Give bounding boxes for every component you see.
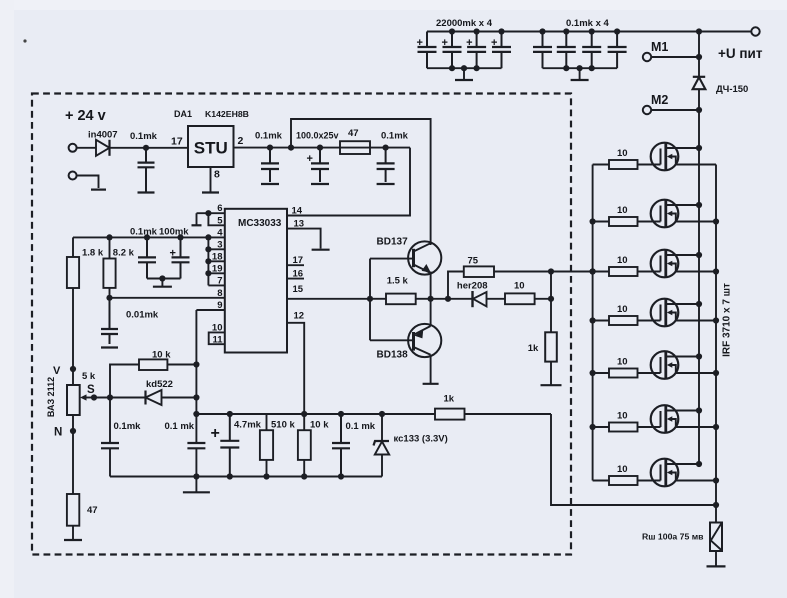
capacitor 0.1mk filter out — [377, 131, 409, 183]
svg-text:11: 11 — [212, 334, 223, 345]
ground STU pin 8 — [202, 191, 219, 193]
svg-text:Rш 100a 75 мв: Rш 100a 75 мв — [642, 532, 704, 542]
ground 47 — [64, 539, 82, 541]
potentiometer 5k VAZ2112 — [46, 371, 96, 417]
resistor 10k pin12 — [298, 411, 329, 477]
svg-text:2: 2 — [238, 135, 244, 147]
svg-text:8: 8 — [217, 288, 222, 299]
terminal M1 — [643, 53, 651, 61]
resistor 10 (gate VT5) — [593, 357, 638, 378]
terminal +U pit — [751, 27, 759, 35]
svg-text:her208: her208 — [457, 281, 488, 292]
node N — [70, 428, 76, 434]
wire BD138 emitter up — [430, 299, 432, 326]
resistor 10 driver — [487, 281, 552, 304]
svg-text:+: + — [211, 425, 220, 442]
svg-text:+: + — [307, 153, 313, 165]
svg-text:0.1mk: 0.1mk — [255, 131, 283, 142]
pin 17 stub — [287, 264, 304, 266]
ground pins 5,6 — [192, 224, 202, 226]
svg-text:ВАЗ 2112: ВАЗ 2112 — [46, 377, 56, 417]
svg-text:10: 10 — [617, 205, 628, 216]
wire BD137 emitter down — [430, 272, 432, 299]
svg-text:0.1mk: 0.1mk — [130, 227, 158, 238]
transistor Q2 BD138 — [377, 324, 442, 361]
ground — [311, 183, 329, 185]
terminal input plus — [69, 144, 77, 152]
capacitor 0.1mk wiper — [101, 398, 141, 477]
wire +U supply top rail — [427, 31, 752, 33]
svg-text:1k: 1k — [444, 394, 455, 405]
ground lower net — [195, 477, 197, 492]
MOSFET VT3 IRF3710 — [638, 250, 717, 278]
wire lower net rail — [196, 413, 435, 415]
svg-text:M2: M2 — [651, 93, 668, 107]
svg-text:100mk: 100mk — [159, 227, 189, 238]
svg-text:+: + — [442, 37, 448, 49]
svg-text:+: + — [466, 37, 472, 49]
dashed border of control board — [32, 94, 571, 555]
MOSFET VT4 IRF3710 — [638, 299, 717, 327]
op-amp U2 MC33033 controller — [225, 209, 287, 353]
wire source bus — [715, 165, 717, 523]
svg-text:+: + — [170, 248, 176, 260]
wire pin6 to ground — [196, 213, 198, 224]
MOSFET VT6 IRF3710 — [638, 405, 717, 433]
node out split — [445, 296, 451, 302]
svg-text:+ 24 v: + 24 v — [65, 108, 106, 124]
svg-text:10 k: 10 k — [310, 420, 329, 431]
node gate drive — [548, 268, 554, 274]
node supply tap — [696, 28, 702, 34]
wire caps common — [147, 278, 181, 280]
wire STU pin2 rail — [234, 147, 411, 149]
resistor 10 (gate VT3) — [593, 255, 638, 276]
resistor 10 (gate VT4) — [593, 304, 638, 325]
node driver out — [428, 296, 434, 302]
svg-text:4: 4 — [217, 227, 223, 238]
svg-text:STU: STU — [194, 139, 228, 158]
pins 10,11 tie — [209, 332, 225, 344]
resistor 10 (gate VT7) — [593, 464, 638, 485]
ground BD138 — [423, 383, 439, 385]
svg-text:75: 75 — [468, 256, 479, 267]
diode kd522 — [146, 379, 197, 405]
wire gate bus — [592, 165, 594, 481]
svg-text:7: 7 — [217, 276, 222, 287]
op-amp U DA1 K142EH8B regulator STU — [171, 109, 249, 181]
svg-text:0.1mk x 4: 0.1mk x 4 — [566, 18, 609, 29]
resistor 1k pulldown — [528, 272, 557, 385]
wire 1.8k to pot — [72, 288, 74, 385]
wire current feedback — [551, 414, 716, 505]
svg-text:47: 47 — [87, 505, 98, 516]
svg-text:0.1 mk: 0.1 mk — [346, 421, 376, 432]
wire pin9 vertical — [195, 310, 197, 443]
svg-text:BD137: BD137 — [377, 237, 409, 248]
pin 8 wire — [110, 297, 225, 299]
pin 9 wire — [196, 309, 224, 311]
svg-text:10: 10 — [617, 411, 628, 422]
wire BD138 collector to ground — [430, 355, 432, 383]
wire BD138 base — [370, 339, 414, 341]
ground — [377, 183, 395, 185]
svg-text:22000mk x 4: 22000mk x 4 — [436, 18, 493, 29]
resistor 10 (gate VT6) — [593, 411, 638, 432]
capacitor 0.01mk — [101, 298, 159, 344]
wire shunt to ground — [715, 551, 717, 566]
capacitor 0.1mk pin9 — [165, 421, 206, 477]
pin 19 wire — [208, 272, 224, 274]
svg-text:MC33033: MC33033 — [238, 218, 282, 229]
capacitor bank 0.1mk x 4 — [533, 18, 627, 71]
wire diode to STU pin17 — [110, 147, 189, 149]
svg-text:19: 19 — [212, 263, 223, 274]
shunt resistor Rsh 100a 75mv — [642, 523, 722, 552]
resistor 47 lower — [67, 494, 98, 526]
pin 13 wire — [287, 229, 321, 249]
svg-text:M1: M1 — [651, 40, 668, 54]
svg-text:N: N — [54, 427, 62, 439]
wire out node — [431, 298, 473, 300]
svg-text:10: 10 — [514, 281, 525, 292]
svg-text:18: 18 — [212, 251, 223, 262]
svg-text:10: 10 — [617, 255, 628, 266]
wire pot to 47 — [72, 415, 74, 494]
svg-text:+U пит: +U пит — [718, 46, 763, 61]
ground pin 13 — [312, 249, 330, 251]
capacitor 0.1mk ref — [332, 411, 376, 477]
svg-text:кс133 (3.3V): кс133 (3.3V) — [394, 434, 448, 445]
node pin6 — [205, 210, 211, 216]
pin 8 wire STU — [210, 167, 212, 192]
wire filtered supply to pin 14 — [287, 148, 410, 216]
node 8.2k pin8 — [106, 295, 112, 301]
svg-text:0.1mk: 0.1mk — [114, 421, 142, 432]
svg-text:4.7mk: 4.7mk — [234, 420, 262, 431]
diode in4007 — [88, 130, 118, 156]
svg-text:14: 14 — [292, 206, 303, 217]
svg-text:8.2 k: 8.2 k — [113, 248, 135, 259]
capacitor 100.0x25v — [296, 131, 339, 183]
svg-text:K142EH8B: K142EH8B — [205, 109, 249, 119]
pin 7 wire — [208, 284, 224, 286]
pin 6 wire — [197, 212, 225, 214]
node pin15 junction — [367, 296, 373, 302]
pin 5 wire — [208, 213, 224, 225]
svg-text:in4007: in4007 — [88, 130, 118, 141]
ground bias caps — [161, 279, 163, 287]
wire wiper row — [94, 397, 146, 399]
pot wiper arrow — [84, 397, 94, 399]
ground shunt — [707, 565, 726, 567]
resistor 8.2k — [103, 237, 134, 288]
terminal M2 — [643, 106, 651, 114]
pin 4 wire — [73, 236, 225, 238]
svg-text:0.01mk: 0.01mk — [126, 310, 159, 321]
ground 0.01mk — [101, 346, 118, 348]
node electrolytic — [317, 145, 323, 151]
ground 1k — [541, 384, 562, 386]
capacitor 100mk pin4 — [170, 237, 190, 278]
wire input — [77, 147, 96, 149]
resistor 1.5k — [370, 276, 431, 305]
svg-text:12: 12 — [294, 311, 305, 322]
MOSFET VT2 IRF3710 — [638, 200, 717, 228]
terminal input minus — [69, 172, 77, 180]
wire 47 to ground — [72, 526, 74, 540]
svg-text:100.0x25v: 100.0x25v — [296, 131, 339, 141]
svg-text:0.1mk: 0.1mk — [130, 131, 158, 142]
resistor 47 filter — [340, 128, 370, 154]
diode her208 — [457, 281, 488, 308]
pin 16 stub — [287, 278, 304, 280]
wire base tie — [369, 259, 371, 341]
svg-text:+: + — [491, 37, 497, 49]
svg-text:+: + — [417, 37, 423, 49]
svg-text:47: 47 — [348, 128, 359, 139]
capacitor 0.1mk input — [130, 131, 158, 192]
ground input minus — [91, 189, 106, 191]
ground of 0.1mk bank — [579, 68, 581, 80]
svg-text:9: 9 — [217, 300, 222, 311]
svg-text:13: 13 — [294, 219, 305, 230]
svg-text:10: 10 — [212, 323, 223, 334]
svg-text:5 k: 5 k — [82, 371, 96, 382]
svg-text:8: 8 — [214, 169, 220, 181]
ground — [261, 183, 279, 185]
resistor 10k speed — [110, 350, 196, 398]
svg-text:V: V — [53, 365, 61, 377]
MOSFET VT7 IRF3710 — [638, 459, 717, 487]
ground input cap — [138, 191, 155, 193]
node shunt top — [713, 502, 719, 508]
capacitor 4.7mk — [211, 411, 262, 477]
svg-text:S: S — [87, 384, 95, 396]
svg-text:1.5 k: 1.5 k — [387, 276, 409, 287]
pin 15 wire drive out — [287, 298, 370, 300]
MOSFET VT1 IRF3710 — [638, 143, 717, 171]
svg-text:17: 17 — [171, 136, 183, 148]
node V — [70, 366, 76, 372]
svg-text:kd522: kd522 — [146, 379, 173, 390]
node — [267, 145, 273, 151]
svg-text:10: 10 — [617, 148, 628, 159]
pin 3 wire — [208, 248, 224, 250]
resistor 75 — [448, 256, 593, 299]
wire supply to driver collector — [291, 119, 431, 245]
wire BD137 base — [370, 258, 414, 260]
diode DCh-150 — [693, 77, 749, 95]
node supply branch — [288, 145, 294, 151]
svg-text:0.1 mk: 0.1 mk — [165, 421, 195, 432]
svg-text:10 k: 10 k — [152, 350, 171, 361]
svg-text:6: 6 — [217, 203, 222, 214]
capacitor bank 22000mk x 4 — [417, 18, 512, 71]
resistor 10 (gate VT1) — [593, 148, 638, 169]
ground of 22000mk bank — [463, 68, 465, 80]
svg-text:15: 15 — [293, 284, 304, 295]
pin 18 wire — [208, 260, 224, 262]
capacitor 0.1mk pin4 — [146, 237, 148, 257]
node after 47 — [383, 145, 389, 151]
svg-text:17: 17 — [293, 255, 304, 266]
svg-text:3: 3 — [217, 239, 222, 250]
pin 12 wire — [287, 323, 304, 414]
svg-text:ДЧ-150: ДЧ-150 — [716, 84, 748, 95]
MOSFET VT5 IRF3710 — [638, 351, 717, 379]
resistor 510k — [260, 414, 296, 477]
node input cap — [143, 145, 149, 151]
wire drain bus upper — [698, 32, 700, 77]
svg-text:1k: 1k — [528, 343, 539, 354]
wire pins 3-18-19-7 tie — [207, 237, 209, 285]
transistor Q1 BD137 — [377, 237, 442, 275]
svg-text:BD138: BD138 — [377, 350, 409, 361]
svg-text:10: 10 — [617, 357, 628, 368]
svg-text:0.1mk: 0.1mk — [381, 131, 409, 142]
resistor 1.8k — [67, 237, 104, 288]
wire input minus — [77, 176, 99, 189]
wire 8.2k to pin8 — [109, 288, 111, 298]
svg-text:DA1: DA1 — [174, 109, 192, 119]
wire lower net common rail — [110, 476, 382, 478]
svg-text:16: 16 — [293, 269, 304, 280]
svg-text:1.8 k: 1.8 k — [82, 248, 104, 259]
resistor 1k feedback — [435, 394, 551, 420]
resistor 10 (gate VT2) — [593, 205, 638, 226]
svg-text:5: 5 — [217, 215, 223, 226]
svg-text:510 k: 510 k — [271, 420, 295, 431]
zener kc133 3.3V — [374, 411, 448, 477]
wire drain bus — [698, 89, 700, 464]
capacitor 0.1mk after STU — [255, 131, 283, 183]
svg-text:10: 10 — [617, 464, 628, 475]
svg-text:IRF 3710 х 7 шт: IRF 3710 х 7 шт — [722, 283, 733, 357]
svg-text:10: 10 — [617, 304, 628, 315]
node S — [91, 394, 97, 400]
